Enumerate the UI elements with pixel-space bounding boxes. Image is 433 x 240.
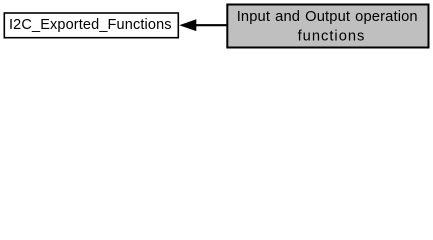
- svg-text:I2C_Exported_Functions: I2C_Exported_Functions: [9, 17, 172, 33]
- svg-text:Input and Output operation: Input and Output operation: [237, 9, 418, 25]
- svg-text:functions: functions: [298, 29, 366, 45]
